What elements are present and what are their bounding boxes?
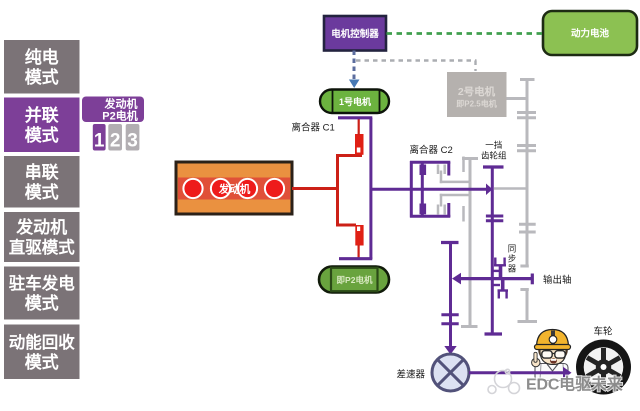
output shaft line with arrow [452, 273, 532, 285]
svg-text:EDC电驱未来: EDC电驱未来 [526, 375, 624, 394]
wheel 车轮 [576, 340, 631, 395]
engineer cartoon [532, 330, 571, 381]
svg-text:动力电池: 动力电池 [571, 28, 610, 40]
legend number 2 [108, 124, 122, 152]
svg-text:发动机: 发动机 [218, 183, 251, 196]
svg-text:2: 2 [110, 131, 121, 152]
synchronizer forks [492, 258, 508, 299]
svg-text:动能回收: 动能回收 [9, 332, 76, 352]
differential 差速器 [432, 354, 469, 391]
wire purple C1 to C2 [371, 188, 424, 191]
svg-text:离合器 C1: 离合器 C1 [292, 122, 335, 134]
svg-text:即P2.5电机: 即P2.5电机 [456, 99, 496, 109]
motor P2 capsule 即P2电机 [319, 267, 389, 293]
clutch C1 purple side / motor shaft [338, 118, 372, 259]
faded shaft middle gray [461, 159, 478, 328]
svg-text:3: 3 [127, 131, 138, 152]
motor2 box 2号电机 (faded) [447, 72, 507, 117]
svg-text:模式: 模式 [25, 352, 59, 372]
arrowhead into motor1 [349, 80, 360, 89]
svg-text:发动机: 发动机 [104, 97, 138, 111]
faded gear teeth near C2 [438, 157, 471, 222]
svg-text:即P2电机: 即P2电机 [337, 275, 373, 285]
label 同步器 (vertical) [508, 244, 517, 274]
legend number 1 [93, 124, 106, 152]
svg-text:并联: 并联 [25, 105, 59, 125]
motor controller box 电机控制器 [324, 16, 386, 51]
svg-text:输出轴: 输出轴 [543, 274, 572, 286]
svg-text:模式: 模式 [25, 293, 59, 313]
svg-text:模式: 模式 [25, 67, 59, 87]
svg-text:器: 器 [508, 264, 517, 274]
faded shaft right (P2.5 gear train) [507, 80, 538, 322]
mode button 动能回收模式 [4, 325, 80, 380]
differential input shaft (purple) [441, 243, 459, 355]
svg-text:一挡: 一挡 [485, 140, 502, 150]
legend number 3 [126, 124, 140, 152]
wire purple diff to wheel with arrow [469, 367, 572, 379]
svg-text:直驱模式: 直驱模式 [9, 237, 76, 257]
svg-text:1: 1 [94, 131, 105, 152]
wire gray dashed to motor2 [356, 61, 477, 72]
svg-text:步: 步 [508, 254, 517, 264]
svg-text:串联: 串联 [25, 162, 59, 182]
wire purple C2 to gear shaft with arrow [422, 184, 492, 196]
battery box 动力电池 [543, 11, 637, 55]
mode button 纯电模式 [4, 40, 80, 94]
mode button 串联模式 [4, 156, 80, 208]
mode button 驻车发电模式 [4, 267, 80, 320]
faded link gear1 to right shaft [494, 187, 527, 190]
svg-text:纯电: 纯电 [25, 47, 59, 67]
motor1 capsule 1号电机 [320, 90, 389, 114]
svg-text:离合器 C2: 离合器 C2 [410, 144, 453, 156]
svg-text:驻车发电: 驻车发电 [9, 273, 76, 293]
svg-text:P2电机: P2电机 [102, 109, 137, 123]
mode button 并联模式 (highlighted) [4, 98, 80, 153]
svg-text:齿轮组: 齿轮组 [481, 151, 507, 161]
wire red engine output [292, 187, 339, 190]
clutch C1 red side [336, 119, 364, 258]
engine box 发动机 [176, 162, 292, 214]
wire green dashed battery-controller [387, 32, 544, 35]
svg-text:模式: 模式 [25, 125, 59, 145]
svg-text:车轮: 车轮 [594, 326, 614, 338]
clutch C2 [410, 161, 450, 218]
svg-text:2号电机: 2号电机 [458, 85, 496, 98]
svg-text:模式: 模式 [25, 182, 59, 202]
watermark logo [488, 369, 520, 393]
first gear shaft (purple) [483, 167, 504, 334]
wire purple dashed controller-motor1 [353, 51, 356, 80]
svg-text:电机控制器: 电机控制器 [331, 28, 379, 40]
legend box 发动机P2电机 [82, 97, 144, 123]
label 一挡齿轮组 [481, 140, 507, 161]
svg-text:同: 同 [508, 244, 517, 254]
svg-text:发动机: 发动机 [15, 217, 67, 237]
mode button 发动机直驱模式 [4, 212, 80, 262]
svg-text:1号电机: 1号电机 [339, 96, 371, 107]
svg-text:差速器: 差速器 [397, 369, 426, 381]
